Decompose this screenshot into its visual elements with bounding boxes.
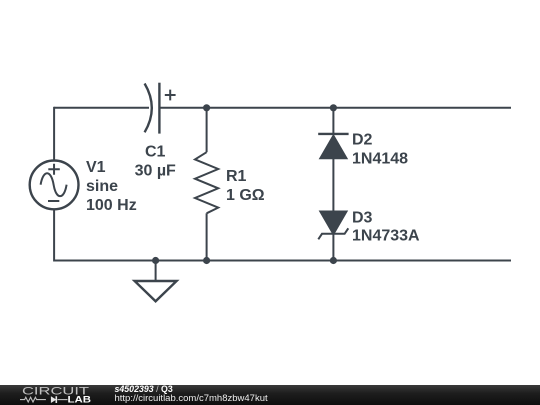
node bottom R1 (203, 257, 210, 264)
footer text (115, 384, 415, 386)
wire between D2 and D3 (332, 158, 334, 212)
zener diode D3 (318, 211, 348, 239)
wire left vertical below V1 (53, 209, 55, 262)
voltage source V1 (30, 161, 79, 210)
svg-text:1N4148: 1N4148 (352, 150, 408, 167)
svg-text:100 Hz: 100 Hz (86, 197, 137, 214)
diode D2 (318, 134, 348, 159)
ground (135, 281, 177, 301)
svg-text:sine: sine (86, 178, 118, 195)
wire bottom rail (54, 260, 511, 262)
svg-text:D3: D3 (352, 210, 373, 227)
resistor R1 (195, 152, 218, 213)
svg-text:R1: R1 (226, 168, 247, 185)
wire ground stub (155, 261, 157, 282)
svg-text:1N4733A: 1N4733A (352, 227, 420, 244)
svg-text:LAB: LAB (68, 394, 92, 405)
label D3 1N4733A (352, 210, 420, 245)
label R1 1 GOhm (226, 168, 265, 204)
footer bar (0, 385, 540, 405)
node bottom diode (330, 257, 337, 264)
wire diode branch top (332, 108, 334, 134)
CircuitLab logo (0, 385, 110, 405)
capacitor C1 (145, 83, 176, 134)
node top diode (330, 104, 337, 111)
node top R1 (203, 104, 210, 111)
wire top-left from V1 to C1 (54, 107, 149, 109)
wire below D3 (332, 234, 334, 261)
label C1 30 uF (135, 144, 176, 180)
svg-text:D2: D2 (352, 132, 373, 149)
svg-text:C1: C1 (145, 144, 166, 161)
svg-text:30 µF: 30 µF (135, 162, 176, 179)
wire top from C1 to right open end (159, 107, 511, 109)
label D2 1N4148 (352, 132, 408, 168)
label V1 sine 100 Hz (86, 159, 137, 214)
wire R1 top (206, 108, 208, 152)
node ground (152, 257, 159, 264)
wire R1 bottom (206, 213, 208, 260)
svg-text:V1: V1 (86, 159, 106, 176)
wire left vertical above V1 (53, 107, 55, 161)
svg-text:1 GΩ: 1 GΩ (226, 187, 265, 204)
